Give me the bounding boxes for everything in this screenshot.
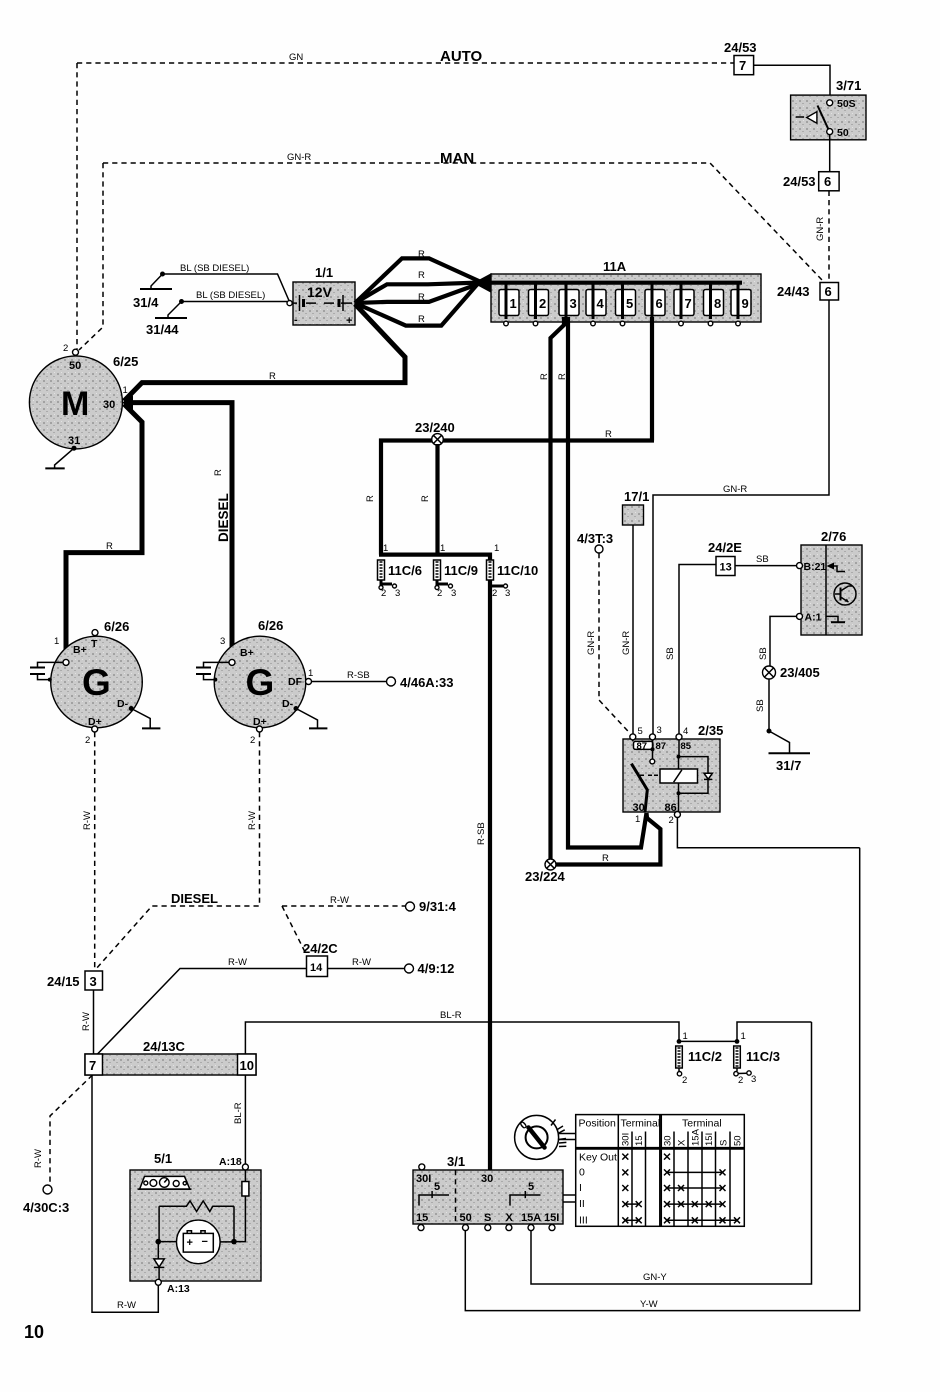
svg-text:15A: 15A [691, 1128, 702, 1146]
svg-text:30: 30 [633, 802, 645, 814]
wire SB 24/2E:13 to 2/76 B:21 [735, 554, 797, 566]
svg-text:5/1: 5/1 [154, 1151, 172, 1166]
wire SB 2/76 A:1 down to lamp 23/405 [758, 616, 797, 666]
svg-text:11C/6: 11C/6 [388, 563, 422, 578]
svg-text:M: M [61, 385, 89, 423]
svg-text:+: + [187, 1237, 193, 1249]
svg-text:23/224: 23/224 [525, 869, 566, 884]
connector strip 24/13C pins 7-10 [85, 1039, 256, 1075]
ignition key symbol [515, 1115, 576, 1159]
svg-text:D+: D+ [253, 716, 267, 728]
svg-text:R-SB: R-SB [476, 822, 487, 845]
svg-text:DIESEL: DIESEL [216, 493, 231, 542]
svg-text:3: 3 [220, 636, 225, 647]
wire BL-R 11C fuses to GN-Y loop [737, 1022, 812, 1041]
svg-text:GN-R: GN-R [815, 217, 826, 241]
svg-text:11C/3: 11C/3 [746, 1049, 780, 1064]
svg-text:R-W: R-W [33, 1149, 44, 1168]
ground 31/4 with BL (SB DIESEL) lead [133, 263, 290, 310]
wire 3/71:50 to 24/53:6 [829, 135, 831, 172]
svg-text:Terminal: Terminal [621, 1118, 661, 1130]
svg-text:15I: 15I [544, 1212, 559, 1224]
svg-text:R: R [418, 314, 425, 325]
wire R-W 24/13C:7 to instrument 5/1 A:13 [92, 1075, 158, 1312]
svg-text:I: I [579, 1182, 582, 1194]
table X marks row Key Out [622, 1154, 670, 1160]
svg-text:2: 2 [682, 1075, 687, 1086]
junction 23/240 [415, 420, 455, 445]
svg-text:BL-R: BL-R [440, 1010, 462, 1021]
fuse link 11C/10 [487, 543, 539, 599]
svg-text:1/1: 1/1 [315, 265, 333, 280]
svg-text:BL (SB DIESEL): BL (SB DIESEL) [180, 263, 249, 274]
svg-text:2: 2 [85, 735, 90, 746]
svg-text:R-W: R-W [117, 1300, 136, 1311]
connector 24/53 pin 6 [783, 172, 839, 191]
svg-text:23/405: 23/405 [780, 665, 820, 680]
wire R starter M:30 to generator G1 B+ [66, 404, 142, 658]
svg-text:11C/9: 11C/9 [444, 563, 478, 578]
wire R-W 24/15:3 to 24/13C:7 [81, 990, 94, 1054]
svg-text:GN: GN [289, 52, 303, 63]
fuse 1 [499, 283, 519, 326]
wire AUTO net (GN) dashed [77, 48, 734, 349]
wire R fuse 6 to junction 23/240 rail [379, 317, 654, 441]
wire R-W dashed G2 D+ DIESEL run to 24/15:3 [96, 732, 260, 969]
svg-text:R: R [213, 469, 224, 476]
svg-text:1: 1 [683, 1031, 688, 1042]
svg-text:1: 1 [494, 543, 499, 554]
wire R fuse 3 to relay 2/35 pin 1 [557, 317, 647, 848]
svg-text:4/3T:3: 4/3T:3 [577, 531, 613, 546]
wire R-W dashed to connector 9/31:4 [282, 895, 457, 954]
svg-text:+: + [346, 315, 352, 327]
svg-text:5: 5 [528, 1181, 534, 1193]
svg-text:24/53: 24/53 [783, 174, 816, 189]
table X marks row I [622, 1185, 725, 1191]
svg-text:R: R [602, 853, 609, 864]
wire R battery to starter motor M [124, 304, 405, 401]
svg-text:3: 3 [505, 588, 510, 599]
svg-text:3/1: 3/1 [447, 1154, 465, 1169]
svg-text:6: 6 [656, 296, 663, 311]
svg-text:Y-W: Y-W [640, 1299, 658, 1310]
svg-text:GN-R: GN-R [586, 631, 597, 655]
svg-text:6: 6 [825, 284, 832, 299]
fuse 6 [645, 283, 665, 319]
fuse 7 [674, 283, 694, 326]
position/terminal table [576, 1115, 745, 1227]
control unit 2/76 [797, 529, 863, 635]
svg-text:15A: 15A [521, 1212, 541, 1224]
svg-text:S: S [484, 1212, 491, 1224]
wire SB lamp to ground 31/7 [755, 679, 790, 753]
svg-text:SB: SB [665, 647, 676, 660]
connector 4/3T:3 [577, 531, 613, 553]
wire R-W 24/2C:14 to connector 4/9:12 [328, 957, 455, 976]
wire relay 2/35 pin 2 to Y-W run [677, 818, 859, 848]
svg-text:GN-Y: GN-Y [643, 1272, 667, 1283]
table X marks row III [622, 1217, 740, 1223]
connector 24/2C pin 14 [303, 941, 338, 977]
wire R rail to 11C/6 pin 1 [365, 439, 381, 555]
svg-text:Key Out: Key Out [579, 1152, 617, 1164]
svg-text:X: X [677, 1139, 688, 1146]
fuse 4 [586, 283, 606, 326]
fuse link 11C/9 [434, 543, 478, 599]
svg-text:23/240: 23/240 [415, 420, 455, 435]
svg-text:5: 5 [638, 726, 643, 737]
connector 24/2E pin 13 [708, 540, 742, 576]
svg-text:7: 7 [739, 58, 746, 73]
svg-text:9/31:4: 9/31:4 [419, 899, 457, 914]
svg-text:−: − [202, 1236, 208, 1248]
wire R-W dashed 24/13C:7 to connector 4/30C:3 [23, 1075, 93, 1215]
svg-text:13: 13 [720, 562, 732, 574]
svg-text:11C/10: 11C/10 [497, 563, 538, 578]
svg-text:G: G [246, 662, 275, 703]
svg-text:1: 1 [741, 1031, 746, 1042]
fuse 2 [529, 283, 549, 326]
svg-text:50: 50 [460, 1212, 472, 1224]
generator G2 6/26 [196, 618, 327, 746]
svg-text:8: 8 [714, 296, 721, 311]
svg-text:1: 1 [54, 636, 59, 647]
svg-text:6/26: 6/26 [258, 618, 283, 633]
svg-text:6: 6 [824, 174, 831, 189]
generator G1 6/26 [30, 619, 160, 746]
svg-text:3/71: 3/71 [836, 78, 861, 93]
svg-text:R-W: R-W [228, 957, 247, 968]
svg-text:7: 7 [685, 296, 692, 311]
svg-text:4: 4 [683, 726, 688, 737]
svg-text:2: 2 [738, 1075, 743, 1086]
switch 3/71 (starter inhibitor) [791, 78, 866, 140]
svg-text:0: 0 [579, 1167, 585, 1179]
svg-text:AUTO: AUTO [440, 48, 483, 65]
svg-text:Position: Position [579, 1118, 617, 1130]
svg-text:R-W: R-W [247, 811, 258, 830]
relay 2/35 [623, 723, 723, 826]
fuse 5 [616, 283, 636, 326]
svg-text:Terminal: Terminal [682, 1118, 722, 1130]
svg-text:5: 5 [434, 1181, 440, 1193]
wire GN-R dashed 24/53:6 to 24/43:6 [815, 191, 829, 282]
svg-text:A:13: A:13 [167, 1283, 190, 1295]
svg-text:SB: SB [756, 554, 769, 565]
svg-text:3: 3 [395, 588, 400, 599]
svg-text:30: 30 [481, 1173, 493, 1185]
svg-text:31/7: 31/7 [776, 758, 801, 773]
svg-text:1: 1 [123, 385, 128, 396]
svg-text:2: 2 [250, 735, 255, 746]
svg-text:2: 2 [669, 815, 674, 826]
instrument cluster 5/1 [130, 1151, 261, 1295]
fuse box 11A with fuses 1-9 [473, 259, 761, 322]
wire R-SB 11C/10 to ignition switch 3/1 terminal 30 [476, 580, 490, 1170]
svg-text:2: 2 [63, 343, 68, 354]
lamp 23/405 [763, 665, 820, 680]
wire R-SB G2 DF to connector 4/46A:33 [312, 670, 454, 690]
svg-text:24/43: 24/43 [777, 284, 810, 299]
svg-text:R: R [269, 371, 276, 382]
junction 23/224 [525, 859, 566, 884]
svg-text:MAN: MAN [440, 150, 474, 167]
svg-text:15: 15 [416, 1212, 428, 1224]
wire R-W to connector 24/2C pin 14 [98, 957, 307, 1054]
svg-text:3: 3 [657, 725, 662, 736]
svg-text:GN-R: GN-R [287, 152, 311, 163]
wire 11C/2 pin1 to 11C/3 pin1 [679, 1040, 737, 1042]
svg-text:1: 1 [383, 543, 388, 554]
svg-text:17/1: 17/1 [624, 489, 649, 504]
svg-text:6/26: 6/26 [104, 619, 129, 634]
wire 24/53:7 to 3/71:50S [754, 65, 830, 100]
svg-text:BL-R: BL-R [233, 1102, 244, 1124]
table X marks row 0 [622, 1169, 725, 1175]
svg-text:SB: SB [755, 699, 766, 712]
svg-text:2/76: 2/76 [821, 529, 846, 544]
svg-text:B+: B+ [240, 647, 254, 659]
svg-text:3: 3 [570, 296, 577, 311]
ground 31/44 with BL (SB DIESEL) lead [146, 290, 287, 337]
svg-text:4/9:12: 4/9:12 [418, 961, 455, 976]
wire R battery to fuse box (spindle 4) [355, 284, 478, 326]
svg-text:D-: D- [282, 698, 294, 710]
svg-text:A:1: A:1 [805, 612, 822, 624]
svg-text:3: 3 [751, 1074, 756, 1085]
wire R-W dashed G1 D+ to 24/15:3 [82, 732, 95, 969]
svg-text:4: 4 [597, 296, 605, 311]
svg-text:24/13C: 24/13C [143, 1039, 186, 1054]
svg-text:R: R [605, 429, 612, 440]
svg-text:15I: 15I [704, 1133, 715, 1146]
svg-text:R: R [418, 292, 425, 303]
svg-text:3: 3 [451, 588, 456, 599]
svg-text:G: G [82, 662, 111, 703]
svg-text:11C/2: 11C/2 [688, 1049, 722, 1064]
svg-text:9: 9 [742, 296, 749, 311]
svg-text:R: R [557, 373, 568, 380]
svg-text:85: 85 [681, 741, 692, 752]
svg-text:BL (SB DIESEL): BL (SB DIESEL) [196, 290, 265, 301]
svg-text:24/53: 24/53 [724, 40, 757, 55]
ground 31/7 [769, 753, 811, 773]
svg-text:11A: 11A [603, 259, 627, 274]
svg-text:R-W: R-W [352, 957, 371, 968]
svg-text:50S: 50S [837, 98, 856, 110]
fuse 3 [559, 283, 579, 319]
svg-text:1: 1 [635, 814, 640, 825]
wire SB relay 2/35 pin 4 to 24/2E:13 [665, 565, 716, 734]
svg-text:2: 2 [539, 296, 546, 311]
svg-text:DIESEL: DIESEL [171, 891, 218, 906]
svg-text:R: R [418, 270, 425, 281]
wire GN-R 24/43:6 to relay 2/35 pin 3 [653, 300, 829, 734]
svg-text:GN-R: GN-R [621, 631, 632, 655]
wire R relay 2/35 pin 1 to junction 23/224 [556, 813, 660, 865]
svg-text:14: 14 [310, 962, 323, 974]
svg-text:50: 50 [837, 127, 849, 139]
svg-text:R-W: R-W [82, 811, 93, 830]
svg-text:4/46A:33: 4/46A:33 [400, 675, 453, 690]
wire R 23/240 to 11C/9 pin 1 [420, 444, 438, 555]
svg-text:87: 87 [637, 741, 648, 752]
svg-text:2: 2 [381, 588, 386, 599]
wire GN-Y loop to ignition switch 3/1 terminal 15A [531, 1022, 812, 1284]
fuse link 11C/3 [734, 1031, 780, 1086]
svg-text:24/2C: 24/2C [303, 941, 338, 956]
svg-text:R-W: R-W [330, 895, 349, 906]
svg-text:D-: D- [117, 698, 129, 710]
wire R battery to fuse box (spindle 2) [355, 270, 481, 303]
wire R (DIESEL) starter M:30 to generator G2 B+ [124, 403, 232, 658]
fuse link 11C/6 [378, 543, 422, 599]
svg-text:24/15: 24/15 [47, 974, 80, 989]
svg-text:B+: B+ [73, 644, 87, 656]
svg-text:30I: 30I [416, 1173, 431, 1185]
wire BL-R 24/13C:10 to instrument 5/1 A:18 [233, 1075, 245, 1164]
connector 24/53 pin 7 [724, 40, 757, 75]
wire R fuse 3 to junction 23/224 [539, 317, 564, 859]
wire BL-R instrument A:18 run to 11C/2 [245, 1010, 679, 1054]
svg-text:A:18: A:18 [219, 1156, 242, 1168]
svg-text:R: R [365, 495, 376, 502]
svg-text:31/44: 31/44 [146, 322, 179, 337]
svg-text:R: R [420, 495, 431, 502]
svg-text:SB: SB [758, 647, 769, 660]
svg-text:12V: 12V [307, 284, 333, 300]
svg-text:2/35: 2/35 [698, 723, 723, 738]
svg-text:15: 15 [634, 1135, 645, 1146]
svg-text:X: X [506, 1212, 514, 1224]
fuse 9 [731, 283, 751, 326]
svg-text:S: S [719, 1140, 730, 1146]
svg-text:6/25: 6/25 [113, 354, 138, 369]
svg-text:2: 2 [437, 588, 442, 599]
svg-text:50: 50 [733, 1135, 744, 1146]
svg-text:30: 30 [663, 1135, 674, 1146]
wire GN-R dashed 4/3T:3 to relay 2/35 pin 5 [586, 553, 630, 733]
svg-text:B:21: B:21 [804, 561, 827, 573]
wire 3/1 to position table rows [563, 1195, 576, 1202]
svg-text:T: T [91, 638, 98, 650]
fuse 8 [704, 283, 724, 326]
svg-text:R: R [539, 373, 550, 380]
wire R battery to fuse box (spindle 1) [355, 249, 481, 303]
ignition switch 3/1 [413, 1154, 563, 1231]
svg-text:II: II [579, 1198, 585, 1210]
svg-text:30: 30 [103, 399, 115, 411]
svg-text:2: 2 [492, 588, 497, 599]
svg-text:-: - [294, 314, 298, 326]
table X marks row II [622, 1201, 725, 1207]
svg-text:31: 31 [68, 435, 80, 447]
svg-text:24/2E: 24/2E [708, 540, 742, 555]
svg-text:R-W: R-W [81, 1012, 92, 1031]
svg-text:31/4: 31/4 [133, 295, 159, 310]
svg-text:30I: 30I [621, 1133, 632, 1146]
svg-text:R: R [106, 541, 113, 552]
wire bus 11C/6-11C/9-11C/10 pin 1 [379, 555, 490, 562]
wire Y-W loop to ignition switch 3/1 terminal 50 [465, 848, 859, 1311]
starter motor M 6/25 [29, 343, 138, 468]
svg-text:1: 1 [308, 668, 313, 679]
battery 1/1 12V [287, 265, 355, 327]
svg-text:10: 10 [24, 1322, 44, 1342]
connector 24/15 pin 3 [47, 971, 103, 990]
fuse link 11C/2 [676, 1031, 722, 1086]
svg-text:R-SB: R-SB [347, 670, 370, 681]
svg-text:1: 1 [440, 543, 445, 554]
connector 17/1 [623, 489, 650, 525]
svg-text:4/30C:3: 4/30C:3 [23, 1200, 69, 1215]
svg-text:10: 10 [240, 1058, 254, 1073]
svg-text:III: III [579, 1215, 588, 1227]
svg-text:3: 3 [90, 974, 97, 989]
svg-text:7: 7 [89, 1058, 96, 1073]
wire GN-R 17/1 to relay 2/35 pin 5 [621, 525, 633, 734]
svg-text:GN-R: GN-R [723, 484, 747, 495]
svg-text:R: R [418, 249, 425, 260]
svg-text:5: 5 [626, 296, 633, 311]
svg-text:D+: D+ [88, 716, 102, 728]
svg-text:87: 87 [656, 741, 667, 752]
wire MAN net (GN-R) dashed [79, 150, 823, 350]
connector 24/43 pin 6 [777, 283, 839, 301]
svg-text:50: 50 [69, 360, 81, 372]
svg-text:1: 1 [510, 296, 517, 311]
svg-text:DF: DF [288, 676, 303, 688]
wire R battery to fuse box (spindle 3) [355, 283, 481, 303]
